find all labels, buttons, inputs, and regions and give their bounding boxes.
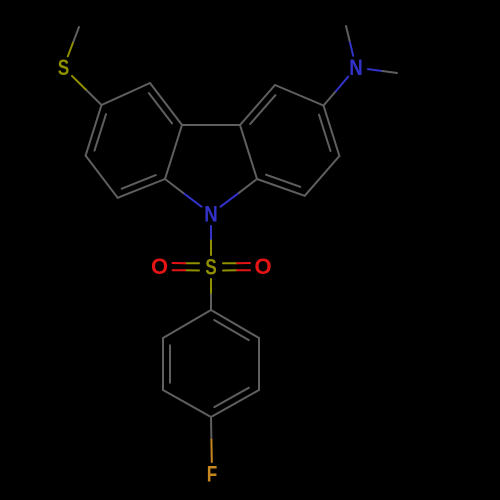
bond C2-C1 (305, 156, 340, 196)
bond C4a-C4 (240, 85, 275, 125)
double bond inner C4a=C4 (250, 95, 275, 124)
bond S-CH3 (thiomethyl) (68, 42, 74, 57)
bond N-CH3 right (368, 69, 383, 71)
bond C1-C9a (257, 179, 305, 196)
double bond inner C3=C4 phenyl (214, 388, 249, 407)
bond C4-F (210, 417, 212, 440)
svg-text:N: N (204, 202, 218, 227)
bond N9-S2 (210, 226, 212, 241)
bond N9-C8a (183, 193, 201, 207)
double bond inner C8a=C8 (122, 175, 156, 189)
bond C9a-C4a (fused edge) (240, 125, 257, 179)
bond C8a-C8 (118, 179, 165, 198)
bond N-CH3 up (350, 41, 354, 56)
bond C4-C5 (phenyl) (163, 390, 211, 417)
bond S-C6 (72, 76, 87, 91)
bond S2-C1ph (210, 279, 212, 295)
double bond inner C3=C2 (319, 115, 331, 151)
svg-text:N: N (349, 55, 363, 80)
double bond inner C5=C6 phenyl (169, 345, 171, 382)
bond C4b-C8a (fused edge) (165, 125, 182, 179)
svg-text:S: S (205, 255, 217, 280)
bond C8-C7 (86, 156, 118, 198)
bond C5-C6 (phenyl) (162, 338, 164, 390)
svg-text:S: S (58, 55, 70, 80)
bond C2-C3 (phenyl) (258, 338, 260, 390)
bond C3-C4 (phenyl) (211, 390, 259, 417)
bond C6-C5 (102, 83, 151, 105)
double bond S=O left (185, 262, 199, 264)
bond C1-C2 (phenyl) (211, 310, 259, 338)
svg-text:O: O (254, 254, 271, 279)
bond C3-N10 (324, 91, 336, 105)
bond C4-C3 (275, 85, 324, 106)
double bond inner C1=C9a (266, 175, 300, 187)
double bond S=O right (223, 269, 237, 271)
bond C4b-C4a (pentagon top) (182, 124, 240, 126)
double bond inner C1=C2 phenyl (214, 320, 249, 340)
bond C3-C2 (324, 106, 340, 157)
bond C5-C4b (150, 83, 182, 125)
bond C6-C1 (phenyl) (163, 310, 211, 338)
double bond inner C7=C6 (95, 114, 107, 150)
double bond inner C5=C4b (149, 93, 172, 123)
svg-text:O: O (151, 254, 168, 279)
bond N9-C9a (221, 193, 239, 207)
svg-text:F: F (207, 462, 218, 487)
bond C7-C6 (86, 105, 102, 156)
